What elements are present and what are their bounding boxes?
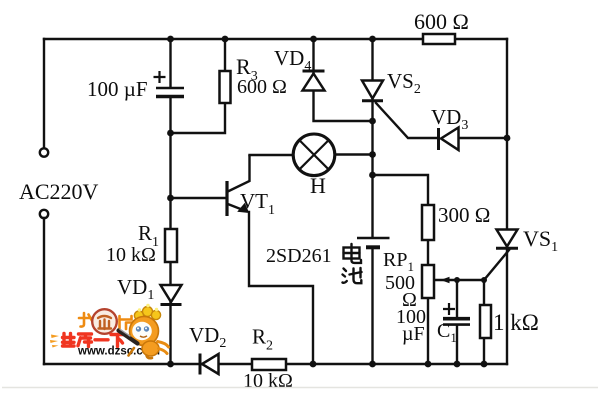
junction emitter bottom	[310, 361, 317, 368]
wire VT1 emitter path	[249, 212, 313, 364]
resistor R3 600ohm	[220, 71, 231, 103]
svg-text:AC220V: AC220V	[19, 179, 99, 204]
junction lamp-VS2	[369, 151, 376, 158]
wire left rail lower	[43, 218, 45, 364]
label VS1	[523, 226, 558, 255]
label 100 C1	[396, 306, 426, 328]
label VD2	[189, 323, 226, 351]
label AC220V	[19, 179, 99, 204]
wire VS2 cathode to battery	[371, 39, 373, 364]
label VT1	[240, 189, 275, 218]
junction top R3	[222, 36, 229, 43]
label 2SD261	[266, 245, 332, 267]
label VD1	[117, 275, 154, 303]
label ohm RP1	[402, 289, 417, 311]
label 600ohm top	[414, 9, 469, 34]
wire 300ohm feed	[373, 175, 429, 364]
label R1	[138, 221, 159, 250]
wire C1 branch	[456, 280, 458, 364]
junction 300ohm node	[369, 172, 376, 179]
wire capacitor branch	[169, 39, 171, 364]
resistor R1 10k	[165, 229, 177, 262]
resistor R2 10k	[252, 359, 286, 370]
label H	[310, 173, 326, 198]
terminal AC bottom	[40, 210, 48, 218]
junction wiper gate	[481, 277, 487, 283]
wire left rail upper	[43, 39, 45, 147]
svg-text:R2: R2	[252, 325, 273, 354]
potentiometer RP1 500ohm	[422, 265, 450, 298]
label battery dian	[344, 244, 362, 263]
scan artifact bottom	[2, 387, 598, 389]
junction RP1 bottom	[425, 361, 432, 368]
wire VD3 to right rail	[459, 137, 507, 139]
label 100uF	[87, 77, 148, 101]
svg-text:1 kΩ: 1 kΩ	[493, 310, 539, 335]
diode VD1	[161, 285, 182, 305]
svg-text:100 µF: 100 µF	[87, 77, 148, 101]
svg-text:10 kΩ: 10 kΩ	[243, 370, 293, 392]
terminal AC top	[40, 148, 48, 156]
wire VS2 gate	[376, 103, 436, 138]
label VS2	[387, 69, 421, 97]
svg-text:VD4: VD4	[274, 46, 311, 74]
label VD3	[431, 105, 468, 133]
label R3	[236, 54, 258, 84]
wire top bus	[44, 38, 507, 40]
diode VD2	[200, 354, 219, 375]
thyristor VS1	[496, 230, 518, 249]
wire right rail	[506, 39, 508, 364]
svg-text:VT1: VT1	[240, 189, 275, 218]
battery cell	[357, 238, 390, 247]
svg-text:2SD261: 2SD261	[266, 245, 332, 267]
diode VD4	[303, 71, 325, 91]
label 300ohm	[438, 203, 490, 227]
capacitor C1 100uF	[443, 319, 470, 325]
label 600ohm R3	[237, 76, 287, 98]
wire bottom bus	[44, 363, 507, 365]
junction wiper C1	[454, 277, 460, 283]
label 1kohm	[493, 310, 539, 335]
label uF C1	[402, 323, 425, 345]
label RP1	[383, 249, 414, 274]
junction top VD4	[310, 36, 317, 43]
wire lamp right	[335, 153, 373, 155]
svg-text:10 kΩ: 10 kΩ	[106, 244, 156, 266]
label 10k R2	[243, 370, 293, 392]
resistor 600ohm top	[423, 34, 455, 44]
label plus C1	[443, 303, 455, 315]
wire 1k branch	[483, 280, 485, 364]
svg-text:600 Ω: 600 Ω	[414, 9, 469, 34]
watermark dzsc logo	[50, 304, 169, 359]
wire lamp left (VT1 collector)	[250, 154, 294, 156]
lamp H	[293, 134, 335, 176]
junction VD4-VS2	[369, 118, 376, 125]
label C1	[437, 320, 457, 345]
junction battery bottom	[369, 361, 376, 368]
label 10k R1	[106, 244, 156, 266]
junction VD1 bottom	[167, 361, 174, 368]
junction base node	[167, 195, 174, 202]
junction C1 bottom	[454, 361, 461, 368]
wire VT1 base	[171, 197, 227, 199]
svg-text:VD3: VD3	[431, 105, 468, 133]
thyristor VS2	[362, 81, 383, 101]
svg-text:300 Ω: 300 Ω	[438, 203, 490, 227]
svg-text:VS2: VS2	[387, 69, 421, 97]
label 500	[385, 272, 415, 294]
junction cap-R3 bottom	[167, 130, 174, 137]
wire VS1 gate	[484, 250, 509, 280]
wire VD4 branch	[314, 39, 373, 121]
junction VD3 rail	[504, 135, 511, 142]
junction top capacitor	[167, 36, 174, 43]
transistor VT1	[227, 155, 250, 216]
svg-text:µF: µF	[402, 323, 425, 345]
svg-text:600 Ω: 600 Ω	[237, 76, 287, 98]
wire RP1 wiper	[435, 279, 485, 281]
svg-text:VD1: VD1	[117, 275, 154, 303]
label battery chi	[343, 268, 362, 283]
junction 1k bottom	[481, 361, 488, 368]
junction top VS2	[369, 36, 376, 43]
resistor 1kohm	[480, 305, 491, 338]
svg-text:VS1: VS1	[523, 226, 558, 255]
label R2	[252, 325, 273, 354]
svg-text:H: H	[310, 173, 326, 198]
wire R3 branch	[171, 39, 226, 133]
capacitor 100uF	[154, 71, 185, 97]
label VD4	[274, 46, 311, 74]
diode VD3	[439, 128, 459, 151]
resistor 300ohm	[422, 205, 434, 240]
svg-text:VD2: VD2	[189, 323, 226, 351]
svg-text:RP1: RP1	[383, 249, 414, 274]
